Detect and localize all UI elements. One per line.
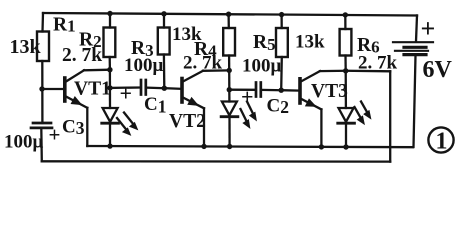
svg-text:13k: 13k [295,32,325,53]
svg-text:2. 7k: 2. 7k [62,45,102,66]
wire battery negative lead [414,56,416,148]
node top R6 [343,12,348,17]
node LED2 cathode rail [227,144,232,149]
svg-text:100μ: 100μ [4,132,44,153]
wire VT2 emitter riser [203,108,205,146]
svg-text:13k: 13k [10,36,42,58]
wire feedback riser [389,71,391,161]
node top R2 [107,11,112,16]
node VT2 collector [227,68,232,73]
svg-text:+: + [421,14,436,43]
svg-text:C3: C3 [62,117,85,139]
wire VT3 collector to feedback riser [346,70,391,73]
wire C1 to R3 node [147,86,165,89]
wire top rail [43,13,417,16]
svg-text:100μ: 100μ [124,55,164,76]
svg-text:2. 7k: 2. 7k [183,53,223,74]
wire VT1 base [42,88,64,90]
node top R5 [279,12,284,17]
resistor R1 [37,32,49,62]
wire right drop to battery [416,16,417,42]
node VT2 emitter rail [201,144,206,149]
svg-text:C2: C2 [267,96,289,118]
node R3 base [162,86,167,91]
resistor R5 [276,15,288,91]
svg-text:6V: 6V [423,57,453,83]
svg-text:VT2: VT2 [169,111,206,132]
wire VT3 base [281,89,299,92]
wire collector node 2 down to LED2 [228,70,230,101]
svg-text:C1: C1 [144,94,166,117]
node VT3 collector [343,68,348,73]
node LED1 cathode rail [107,143,112,148]
wire VT2 base [164,87,181,90]
wire C2 to R5 node [262,89,281,92]
resistor R4 [223,14,235,70]
battery GB 6V [393,42,433,54]
wire VT3 emitter riser [320,109,322,146]
node VT1 collector [107,67,112,72]
resistor R2 [104,14,116,70]
transistor VT1 [65,70,110,108]
svg-text:R5: R5 [253,32,276,54]
transistor VT3 [300,71,346,110]
circled figure number 1 [428,127,453,152]
LED VD1 [102,108,138,146]
resistor R3 [158,14,170,88]
wire VT1 emitter riser [86,108,88,146]
node C2 tee [227,87,232,92]
node C1 tee [107,85,112,90]
wire left branch upper stub [41,13,44,32]
node LED3 cathode rail [343,144,348,149]
resistor R6 [340,15,352,71]
wire collector node 3 down to LED3 [345,71,347,108]
node top R3 [161,11,166,16]
svg-text:+: + [120,81,133,106]
node top R4 [226,12,231,17]
capacitor C2 [256,83,261,97]
svg-text:+: + [49,123,61,147]
node VT1 base [39,86,44,91]
LED VD3 [338,102,371,148]
wire R1 bottom to C3 [41,61,43,123]
svg-text:2. 7k: 2. 7k [358,53,398,74]
svg-text:VT1: VT1 [74,79,111,100]
wire outer bottom rail (feedback) [42,160,390,163]
svg-text:100μ: 100μ [242,56,282,77]
capacitor C1 [141,80,146,95]
svg-text:VT3: VT3 [311,81,348,102]
svg-text:1: 1 [436,129,448,155]
transistor VT2 [182,70,229,108]
svg-text:R1: R1 [53,15,76,36]
node VT3 emitter rail [319,144,324,149]
node R5 base [279,88,284,93]
wire C3 to outer bottom rail [40,128,43,161]
wire inner bottom rail [87,146,413,147]
wire to C1 [110,86,140,89]
LED VD2 [221,102,256,147]
wire to C2 [229,89,255,91]
svg-text:+: + [241,84,254,109]
wire collector node 1 down to LED1 [109,70,111,108]
capacitor C3 [31,123,52,128]
